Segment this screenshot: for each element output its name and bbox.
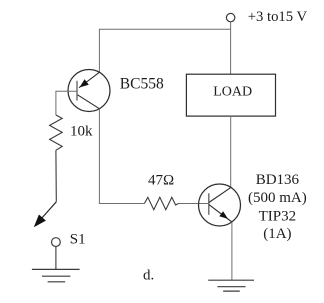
svg-text:47Ω: 47Ω [148, 173, 174, 189]
wire 47 ohm to BD136 base [179, 203, 209, 205]
wire rail to BC558 emitter [98, 29, 100, 73]
power terminal +V [226, 13, 234, 21]
svg-text:TIP32: TIP32 [259, 209, 297, 225]
wire base corner down [55, 91, 57, 115]
transistor Q1 BC558 [68, 70, 110, 112]
wire S1 to ground [55, 247, 57, 270]
wire top rail (horizontal) [99, 28, 231, 30]
switch S1 blade [41, 202, 56, 219]
wire corner to 47 ohm [99, 203, 144, 205]
svg-text:d.: d. [143, 268, 154, 284]
wire BC558 collector down [98, 109, 100, 204]
wire terminal to load (vertical) [230, 22, 232, 74]
LOAD box [186, 74, 275, 116]
switch S1 terminal circle [52, 238, 61, 247]
switch S1 arrowhead [34, 215, 46, 228]
resistor R2 47 ohm [144, 197, 178, 209]
svg-text:S1: S1 [70, 232, 86, 248]
resistor R1 10k [50, 115, 63, 150]
svg-text:10k: 10k [70, 124, 93, 140]
svg-text:BC558: BC558 [120, 75, 164, 92]
wire 10k to switch [55, 150, 57, 202]
svg-text:(500 mA): (500 mA) [248, 190, 307, 206]
ground (left) [32, 269, 80, 281]
svg-text:(1A): (1A) [263, 226, 291, 242]
ground (right) [208, 280, 254, 291]
svg-text:BD136: BD136 [256, 172, 300, 188]
transistor Q2 BD136/TIP32 [199, 184, 241, 226]
svg-text:LOAD: LOAD [213, 85, 252, 100]
wire LOAD to BD136 collector [230, 116, 232, 187]
svg-text:+3 to15 V: +3 to15 V [248, 9, 308, 25]
wire BC558 base to 10k [56, 90, 77, 92]
wire BD136 emitter to ground [231, 222, 233, 280]
